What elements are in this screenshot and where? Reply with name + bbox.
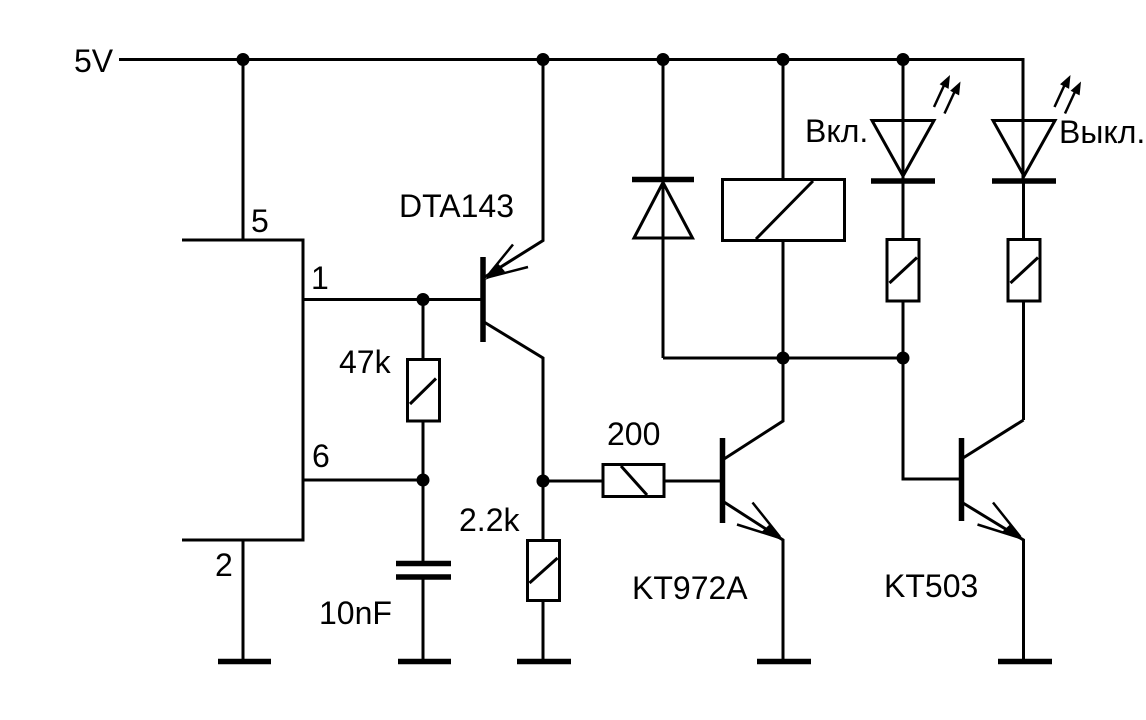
wire: rail to IC pin 5 — [242, 60, 245, 242]
transistor Q3 KT503: emitter arrow (points out) — [993, 503, 1021, 538]
LED1 emission arrow a — [934, 81, 946, 107]
LED2 emission arrow a — [1055, 81, 1067, 107]
wire: IC pin 1 to DTA143 base — [303, 298, 481, 301]
resistor R3 200 (horizontal) — [603, 465, 664, 497]
svg-text:Вкл.: Вкл. — [805, 113, 868, 149]
resistor R1 47k — [408, 360, 440, 422]
wire: LED1 to resistor — [902, 183, 905, 240]
transistor Q3 KT503: collector wire — [963, 420, 1024, 458]
svg-text:5: 5 — [251, 203, 269, 239]
capacitor C1 10nF — [396, 561, 451, 567]
node: rail / DTA143 emitter — [537, 53, 550, 66]
wire: 2.2k to ground — [542, 600, 545, 660]
wire: capacitor to ground — [422, 578, 425, 660]
svg-text:200: 200 — [607, 416, 660, 452]
wire: node to 2.2k — [542, 481, 545, 541]
LED2 emission arrow b — [1065, 88, 1077, 114]
wire: bottom node rail (diode-relay-LED1) — [663, 357, 903, 360]
svg-text:6: 6 — [312, 438, 330, 474]
resistor R2 2.2k — [528, 541, 560, 601]
diode D1 triangle (pointing up) — [634, 183, 693, 239]
svg-text:DTA143: DTA143 — [399, 188, 514, 224]
node: relay bottom junction — [777, 352, 790, 365]
node: rail / LED1 — [897, 53, 910, 66]
ground (capacitor) — [398, 659, 451, 665]
svg-text:1: 1 — [311, 260, 329, 296]
ground (pin 2) — [218, 659, 271, 665]
wire: pin6 node to capacitor — [422, 480, 425, 562]
wire: node to 200 resistor — [543, 480, 604, 483]
IC U1 partial outline — [182, 240, 303, 540]
svg-text:KT503: KT503 — [884, 568, 978, 604]
wire: rail to LED1 — [902, 60, 905, 181]
node: pin1 / 47k junction — [417, 293, 430, 306]
svg-text:47k: 47k — [339, 344, 392, 380]
LED2 triangle — [993, 121, 1055, 177]
ground (2.2k) — [517, 659, 571, 665]
svg-text:2: 2 — [215, 547, 233, 583]
transistor Q2 KT972A: collector wire up to relay node — [724, 358, 783, 459]
svg-text:Выкл.: Выкл. — [1059, 114, 1145, 150]
LED1 emission arrow b — [945, 88, 957, 114]
wire: relay coil to bottom node — [782, 240, 785, 358]
wire: 200 to KT972A base — [663, 480, 721, 483]
wire: bottom node to KT503 base — [903, 358, 960, 479]
LED1 triangle — [872, 121, 934, 177]
transistor Q2 KT972A: emitter wire to ground — [724, 502, 783, 660]
transistor Q2 KT972A: emitter arrow (points out) — [753, 503, 781, 538]
wire: IC pin 6 stub — [303, 479, 423, 482]
transistor Q1 DTA143: emitter arrow (points into base) — [487, 245, 513, 277]
wire: R5 to KT503 collector — [1022, 300, 1025, 420]
svg-text:10nF: 10nF — [319, 595, 392, 631]
relay K1 coil — [723, 180, 845, 241]
node: pin6 / 47k / capacitor junction — [417, 474, 430, 487]
node: DTA collector / 2.2k / 200 junction — [537, 475, 550, 488]
wire: 47k to pin6 node — [422, 421, 425, 480]
wire: 5V top rail — [119, 58, 1025, 61]
transistor Q3 KT503: base bar — [959, 438, 965, 521]
wire: rail to diode cathode — [662, 60, 665, 181]
LED2 cathode bar — [992, 178, 1056, 184]
wire: pin1 node to 47k — [422, 300, 425, 362]
wire: R4 to bottom node — [902, 300, 905, 358]
LED1 cathode bar — [871, 178, 935, 184]
wire: IC pin 2 to ground — [242, 540, 245, 660]
transistor Q3 KT503: emitter wire to ground — [963, 503, 1024, 660]
svg-text:5V: 5V — [74, 43, 114, 79]
wire: rail to relay coil — [782, 60, 785, 181]
wire: diode anode down to bottom node rail — [662, 182, 665, 358]
node: rail / diode — [657, 53, 670, 66]
node: LED1 bottom junction — [897, 352, 910, 365]
transistor Q1 DTA143: base bar — [480, 257, 486, 342]
diode D1 cathode bar — [632, 177, 694, 183]
transistor Q1 DTA143 (PNP): emitter wire from rail — [484, 60, 543, 278]
node: rail / pin5 branch — [237, 53, 250, 66]
wire: LED2 to resistor — [1022, 183, 1025, 240]
wire: rail corner down to LED2 — [1022, 58, 1025, 180]
ground (KT503 emitter) — [998, 659, 1052, 665]
transistor Q2 KT972A: base bar — [720, 438, 726, 523]
svg-text:2.2k: 2.2k — [459, 502, 520, 538]
transistor Q1 DTA143: collector wire down to node — [484, 322, 543, 481]
ground (KT972A emitter) — [757, 659, 811, 665]
node: rail / relay — [777, 53, 790, 66]
resistor R4 (LED1) — [887, 240, 919, 302]
resistor R5 (LED2) — [1008, 240, 1040, 302]
svg-text:KT972A: KT972A — [632, 570, 748, 606]
